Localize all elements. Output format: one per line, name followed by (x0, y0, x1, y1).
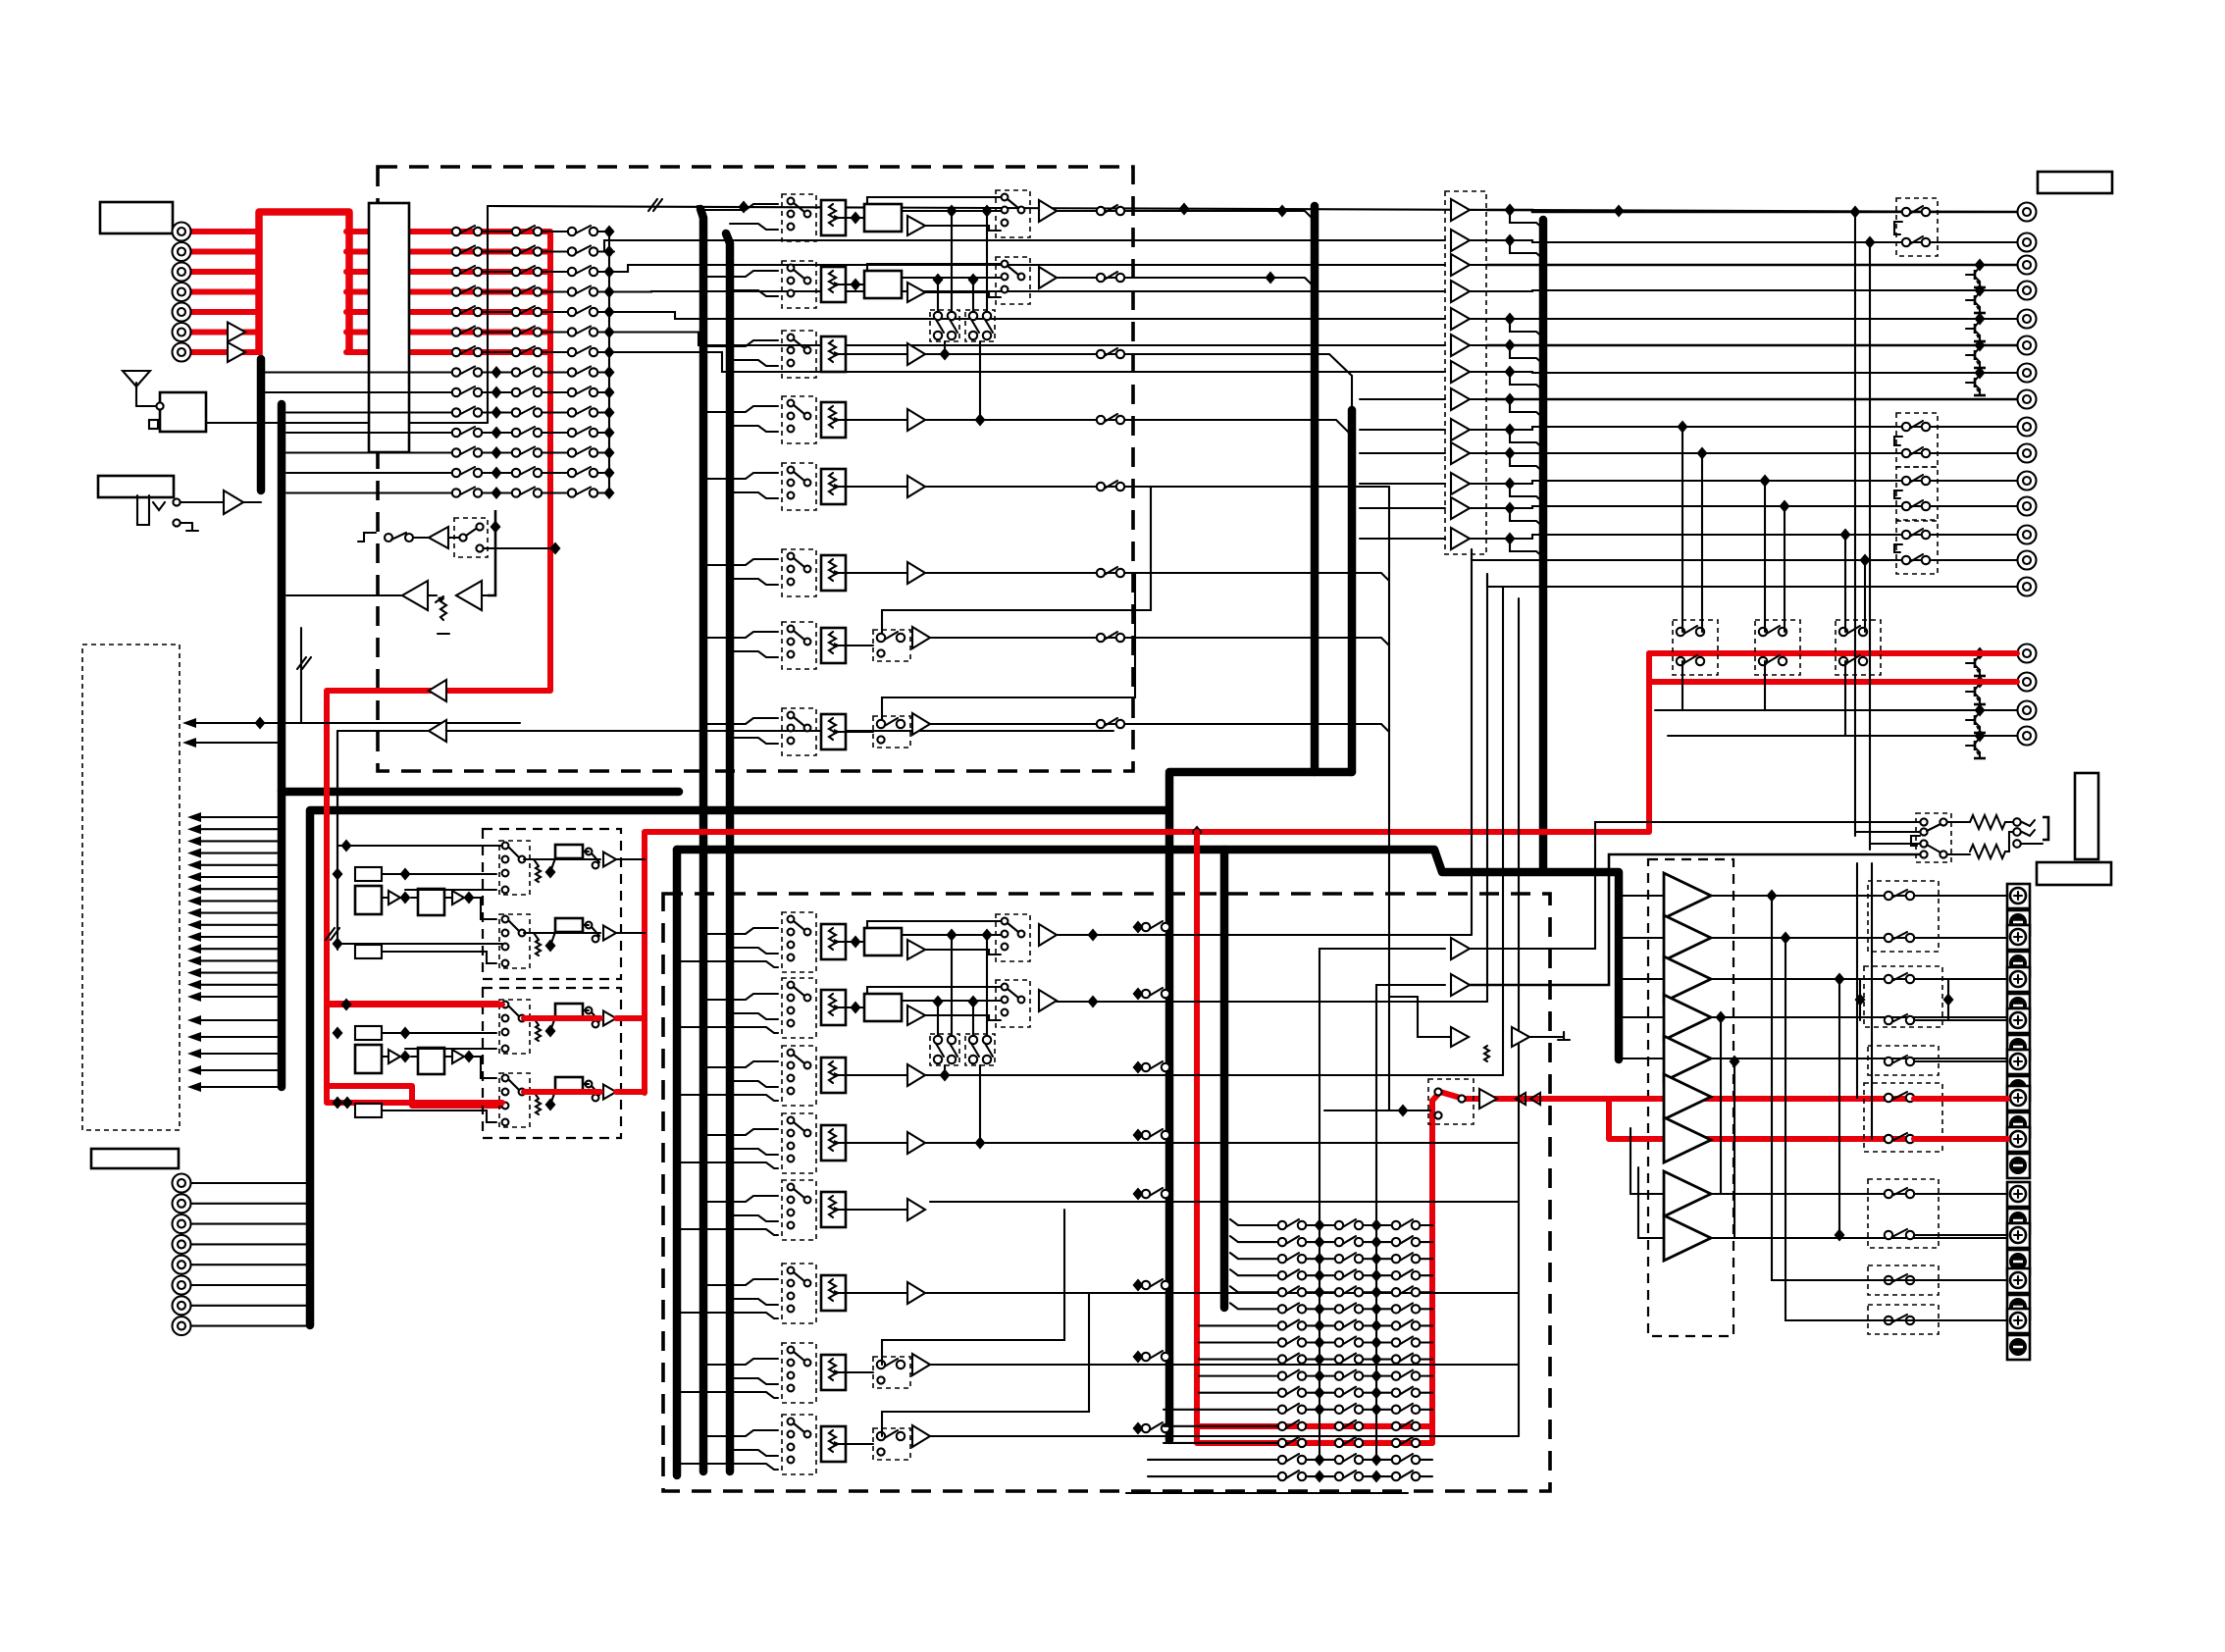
wire: fader to aux switch (846, 1443, 873, 1445)
connector: rear output jack 12 (2018, 497, 2037, 516)
wire: output row 3 to rear jack (1486, 264, 2017, 267)
wire: aux buffer out to program bus (243, 501, 261, 503)
wire: tuner output to source line (206, 422, 488, 424)
dashed box: channel input selector (782, 1046, 816, 1106)
dashed box: output mode switch (1896, 198, 1938, 256)
switch: matrix row 9 column 3 (568, 387, 597, 396)
connector: rear output jack 10 (2018, 444, 2037, 463)
op-amp: channel output buffer (1039, 990, 1057, 1011)
dashed box: phono input selector 2 (499, 1073, 530, 1127)
pot: channel fader (821, 1355, 846, 1390)
op-amp: line buffer 10 (1451, 442, 1470, 464)
connector: tape out jack 8 (173, 1316, 191, 1335)
wire: crossfeed verticals x1875 (1838, 979, 1840, 1235)
wire: power amp input stubs (1619, 895, 1664, 897)
terminal: speaker output 5 (2007, 1050, 2030, 1101)
wire: bank1 row4 output into bus x1378 (925, 420, 1352, 436)
wire: output row 9 to rear jack (1486, 427, 2017, 430)
wire: tape play line y745 with buffer (337, 730, 1113, 732)
switch: monitor matrix row 12 (1306, 1409, 1335, 1411)
pot: channel fader (821, 555, 846, 591)
op-amp: line buffer 8 (1451, 388, 1470, 410)
switch: matrix row 1 column 3 (568, 226, 597, 235)
wire: EQ interconnects (382, 897, 388, 899)
hash: bus width mark on x307 line (300, 628, 302, 723)
switch: matrix row 14 column 3 (568, 488, 597, 497)
switch: monitor matrix row 8 (1306, 1341, 1335, 1343)
wire: red selected source row 5 (346, 309, 550, 315)
block: phono EQ stage B (418, 889, 444, 915)
wire: output row 4 to rear jack (1486, 290, 2017, 291)
switch: phono output select (593, 1021, 599, 1028)
dashed box: channel input selector (782, 261, 816, 308)
wire: module out to select (902, 277, 1001, 279)
wire: jack tip to buffer (181, 501, 224, 503)
op-amp: phono buffer B (452, 891, 464, 904)
op-amp: post delay buffer (907, 216, 925, 235)
op-amp: line buffer 5 (1451, 308, 1470, 330)
dashed box: tape copy selector 1 (1673, 620, 1718, 675)
wire: function selector feed 8 (191, 900, 282, 902)
wire: phones feed vertical L (1854, 212, 1856, 836)
wire: red input lead 4 from phono jack (190, 289, 259, 295)
resistor: phones series R (1970, 845, 2005, 858)
dashed box: phono equalizer block (483, 829, 621, 979)
jack: aux/mic jack (137, 495, 165, 525)
wire: red selected source row 2 (346, 249, 550, 255)
block: delay/EQ module (864, 994, 902, 1021)
switch: monitor matrix row 10 (1306, 1375, 1335, 1377)
wire: speaker line 2 (1711, 937, 2007, 939)
connector: rear output jack 9 (2018, 418, 2037, 437)
switch: phono output select (593, 1095, 599, 1102)
switch: monitor matrix row 15 (1306, 1459, 1335, 1461)
node: talk join on V505 (491, 521, 501, 534)
wire: output row 11 to rear jack (1486, 481, 2017, 484)
pot: osc level vertical (440, 598, 446, 620)
wire: buffer 5 tap to mix bus (1510, 319, 1543, 337)
switch: monitor matrix row 6 (1306, 1308, 1335, 1310)
resistor: phono input load 1 (355, 1026, 382, 1040)
terminal: speaker output 6 (2007, 1086, 2030, 1137)
op-amp: post delay buffer (907, 283, 925, 302)
switch: matrix row 10 column 3 (568, 407, 597, 417)
wire: black feed rows 10-14 from source bus (286, 411, 412, 413)
switch: phones select levers (1927, 824, 1940, 831)
terminal: speaker output 2 (2007, 925, 2030, 976)
wire: function selector feed 4 (191, 852, 282, 854)
wire: tape3 out row 15 (1486, 574, 1488, 587)
wire: phono path lower row (337, 943, 502, 945)
connector: tape out jack 7 (173, 1296, 191, 1315)
wire: monitor matrix column verticals (1319, 1225, 1320, 1460)
op-amp: post delay buffer (907, 940, 925, 959)
wire: tape out lead 2 (191, 1203, 310, 1205)
dashed box: channel input selector (782, 1343, 816, 1403)
ground: echo ref (1558, 1032, 1570, 1040)
wire: source row 3 to buffer column (614, 265, 1445, 272)
wire: function selector feed 15 (191, 984, 282, 986)
dashed box: channel input selector (782, 622, 816, 669)
dashed box: channel input selector (782, 1180, 816, 1240)
switch: monitor matrix row 5 (1306, 1291, 1335, 1293)
wire: monitor link verticals to speaker switches (1856, 863, 1858, 1098)
transistor: REC muting Q5 (1966, 655, 1986, 676)
pot: phono trim (536, 940, 541, 955)
switch: monitor matrix row 14 (1306, 1440, 1335, 1446)
node: monitor branch junction on red feed (1192, 826, 1203, 839)
connector: REC OUT jack 1 (2018, 645, 2037, 663)
wire: bank1 row8 output to monitor feed (930, 724, 1389, 732)
switch: talkback mute switch (385, 534, 392, 542)
switch: matrix row 11 column 1 (452, 427, 482, 437)
transistor: muting Q4 (1966, 347, 1986, 368)
switch: phono output select (593, 862, 599, 869)
dashed box: channel input selector (782, 194, 816, 241)
switch: matrix row 13 column 1 (452, 467, 482, 477)
wire: buffer 13 tap to mix bus (1510, 539, 1543, 557)
wire: phones wiring (1947, 821, 1970, 823)
wire: jack ring stub to ground (181, 522, 192, 524)
dashed box: channel input selector (782, 1264, 816, 1323)
wire: matrix row 9 left stub (412, 391, 452, 393)
jack: phones frame (2043, 817, 2048, 840)
bus: record feed bus (x690) down into bank2 (673, 850, 682, 1475)
op-amp: channel buffer (907, 1132, 925, 1154)
pot: channel fader (821, 336, 846, 372)
wire: module out to select (902, 934, 1001, 936)
switch: monitor matrix row 2 (1306, 1241, 1335, 1243)
dashed box: aux routing switch (873, 1357, 910, 1388)
op-amp: mix to function buffer (left-facing) (429, 680, 446, 701)
switch: matrix row 6 column 3 (568, 327, 597, 336)
op-amp: power amplifier 3 (1664, 956, 1711, 1002)
wire: vertical x344 tape feed into phono block (336, 731, 338, 940)
wire: matrix row 8 left stub (412, 371, 452, 373)
wire: copy selector drops to REC lines (1844, 661, 1846, 736)
wire: phono path lower row (327, 1086, 502, 1103)
label box: tape outputs (91, 1149, 179, 1168)
transistor: REC muting Q7 (1966, 712, 1986, 733)
switch: matrix row 4 column 1 (452, 286, 482, 296)
dashed box: monitor/source select (996, 980, 1030, 1027)
wire: tape out lead 4 (191, 1243, 310, 1245)
op-amp: channel buffer (907, 476, 925, 497)
wire: echo feed (1418, 997, 1451, 1037)
wire: bus feeds to selector (703, 928, 778, 934)
dashed box: tape copy selector 3 (1836, 620, 1881, 675)
pot: channel fader (821, 469, 846, 504)
dashed block: buffer amp column enclosure (1445, 191, 1486, 554)
wire: copy selector risers (1844, 535, 1846, 632)
op-amp: osc buffer B (left-facing) (456, 581, 482, 610)
pot: phono trim (536, 1025, 541, 1041)
wire: function selector feed lower 3 (191, 1053, 282, 1055)
wire: red input lead 6 from phono jack (190, 330, 259, 336)
op-amp: line buffer 13 (1451, 528, 1470, 549)
wire: red input lead 5 from phono jack (190, 309, 259, 315)
wire: bus feeds to selector (703, 632, 778, 638)
wire: source row 6 to buffer column (614, 333, 1445, 346)
wire: speaker staircase verticals (1772, 896, 2007, 1280)
wire: tape out lead 8 (191, 1325, 310, 1327)
wire: red monitor drop x1220 (1197, 832, 1432, 1443)
bus: vertical program bus left (under red trunk) (257, 359, 266, 490)
wire: function feed line with arrow y737 (186, 722, 520, 724)
wire: output row 2 to rear jack (1486, 240, 2017, 242)
dashed box: channel input selector (782, 396, 816, 443)
wire: buffer 7 tap to mix bus (1510, 372, 1543, 390)
wire: buffer 1 tap to mix bus (1510, 210, 1543, 229)
switch: matrix row 5 column 1 (452, 306, 482, 316)
op-amp: line input buffer upper (228, 323, 245, 342)
antenna: AM/FM (123, 371, 155, 406)
wire: record bus 717 tap curve (698, 206, 703, 214)
terminal: speaker output 9 (2007, 1223, 2030, 1274)
dashed box: monitor source selector (1428, 1079, 1474, 1124)
connector: rear output jack 4 (2018, 282, 2037, 300)
wire: bus feeds to selector (703, 1430, 778, 1436)
wire: red phono trunk top-left (259, 212, 349, 355)
connector: tape out jack 5 (173, 1256, 191, 1274)
wire: red speaker feed overlay L (1914, 1096, 2007, 1102)
block: tuner (160, 392, 206, 432)
wire: loop over module (867, 987, 1001, 994)
switch: monitor matrix row 4 (1306, 1274, 1335, 1276)
switch: matrix row 2 column 2 (512, 246, 542, 256)
pot: channel fader (821, 1058, 846, 1093)
wire: tape3 riser verticals (1471, 549, 1473, 935)
wire: bus feeds to selector (703, 204, 778, 210)
op-amp: power amplifier 5 (1664, 1036, 1711, 1081)
wire: red REC OUT right y695 (1649, 679, 2017, 685)
op-amp: phono buffer A (388, 891, 400, 904)
wire: bus feeds to selector (703, 406, 778, 412)
wire: mix bus stub to buffer row 11 (1360, 483, 1445, 485)
wire: matrix col1 riser to monitor amp 1 (1319, 949, 1445, 1225)
transistor: muting Q5 (1966, 375, 1986, 395)
op-amp: echo return (1512, 1027, 1529, 1047)
op-amp: power amplifier 7 (1664, 1117, 1711, 1162)
dashed box: channel input selector (782, 549, 816, 596)
transistor: REC muting Q8 (1966, 738, 1986, 758)
pot: channel fader (821, 200, 846, 235)
wire: function selector feed 16 (191, 996, 282, 998)
wire: EQ interconnects (382, 1056, 388, 1058)
op-amp: tape play buffer (left-facing) (429, 720, 446, 742)
switch: matrix row 14 column 2 (512, 488, 542, 497)
wire: output row 1 to rear jack (1486, 210, 2017, 212)
switch: matrix row 12 column 1 (452, 447, 482, 457)
switch: matrix row 1 column 1 (452, 226, 482, 235)
block: phono EQ stage A (355, 1045, 382, 1073)
wire: red input lead 1 from phono jack (190, 229, 259, 234)
wire: extra unswitched line below matrix (1126, 1492, 1408, 1494)
switch: matrix row 13 column 2 (512, 467, 542, 477)
switch: matrix row 6 column 1 (452, 327, 482, 336)
wire: speaker line 3 (1711, 978, 2007, 980)
connector: tape out jack 6 (173, 1276, 191, 1295)
wire: fader to aux switch (846, 731, 873, 733)
dashed box: phono equalizer block (483, 988, 621, 1138)
resistor: phono input load 1 (355, 867, 382, 881)
wire: mix bus stub to buffer row 8 (1360, 398, 1445, 400)
wire: dub outputs down (944, 341, 946, 354)
switch: matrix row 12 column 3 (568, 447, 597, 457)
switch: matrix row 3 column 2 (512, 266, 542, 276)
connector: rear output jack 1 (2018, 203, 2037, 222)
wire: function feed line with arrow y757 (186, 742, 282, 744)
connector: rear output jack 15 (2018, 578, 2037, 596)
terminal: speaker output 7 (2007, 1127, 2030, 1178)
switch: matrix row 6 column 2 (512, 327, 542, 336)
wire: bus feeds to selector (703, 1196, 778, 1202)
connector: rear output jack 6 (2018, 336, 2037, 355)
connector: phono/line input jack 6 (173, 323, 191, 341)
switch: matrix row 5 column 2 (512, 306, 542, 316)
wire: function selector feed 12 (191, 948, 282, 950)
op-amp: phono output buffer (603, 926, 616, 941)
wire: output row 8 to rear jack (1486, 398, 2017, 401)
wire: bank1 row3 output into bus x1378 (925, 354, 1352, 410)
op-amp: channel buffer (907, 343, 925, 365)
switch: matrix row 8 column 2 (512, 367, 542, 377)
wire: record bus 744 tap curve (724, 232, 730, 239)
wire: source row 7 to buffer column (614, 352, 1445, 372)
wire: function selector feed 3 (191, 840, 282, 842)
wire: output row 6 to rear jack (1486, 344, 2017, 347)
terminal: speaker output 8 (2007, 1182, 2030, 1233)
wire: bank2 aux links to rows 5/6 (882, 1210, 1064, 1365)
dashed box: phones source switch (1916, 813, 1951, 862)
wire: red monitor riser x1460 (1429, 1101, 1435, 1443)
bus: source bus B from y412 down left side (278, 404, 286, 1087)
hash: impedance mark on red trunk (326, 928, 339, 940)
wire: module out to select (902, 1000, 1001, 1002)
switch: matrix row 11 column 3 (568, 427, 597, 437)
switch: matrix row 14 column 1 (452, 488, 482, 497)
switch: matrix row 3 column 3 (568, 266, 597, 276)
wire: function selector feed 9 (191, 912, 282, 914)
pot: channel fader (821, 714, 846, 749)
strip: input connector strip rectangle (369, 203, 409, 452)
wire: bus feeds to selector (703, 559, 778, 565)
block: tuner ground tab (149, 420, 160, 429)
bus: record bus V744 (726, 233, 730, 1471)
connector: REC OUT jack 2 (2018, 673, 2037, 692)
switch: matrix row 2 column 1 (452, 246, 482, 256)
wire: red phono-2 lower branch y1124 (327, 1103, 502, 1106)
switch: monitor matrix row 3 (1306, 1258, 1335, 1260)
pot: channel fader (821, 1275, 846, 1311)
wire: tape out lead 5 (191, 1264, 310, 1265)
block: phono EQ stage B (418, 1048, 444, 1074)
wire: tape out lead 3 (191, 1223, 310, 1225)
wire: red selected source row 6 (346, 330, 550, 336)
wire: bus feeds to selector (703, 718, 778, 724)
ground: switch common (1894, 544, 1902, 552)
wire: red REC OUT overlay (1947, 650, 2017, 656)
resistor: phono input load 2 (355, 1104, 382, 1117)
transistor: muting Q1 (1966, 267, 1986, 287)
resistor: phono input load 2 (355, 945, 382, 958)
op-amp: channel buffer (907, 409, 925, 431)
wire: red through monitor selector switch (1432, 1092, 2017, 1101)
op-amp: monitor amp 1 (1451, 938, 1470, 959)
wire: copy selector drops to REC lines (1682, 661, 1683, 710)
op-amp: phono output buffer (603, 1085, 616, 1100)
dashed box: monitor/source select (996, 914, 1030, 961)
switch: matrix row 4 column 2 (512, 286, 542, 296)
wire: loop over module (867, 197, 1001, 204)
resistor: echo level (1484, 1046, 1489, 1061)
wire: master source line y210 across page (488, 206, 2017, 212)
connector: tape out jack 1 (173, 1174, 191, 1193)
jack: phones springs (2022, 820, 2035, 826)
wire: buffer 8 tap to mix bus (1510, 399, 1543, 418)
connector: phono/line input jack 7 (173, 343, 191, 362)
dashed box: phono input selector 2 (499, 914, 530, 968)
op-amp: channel buffer (912, 1425, 930, 1447)
wire: speaker line 8 (1711, 1193, 2007, 1195)
wire: tape out lead 1 (191, 1182, 310, 1184)
switch: matrix row 7 column 2 (512, 346, 542, 356)
wire: tape out lead 7 (191, 1305, 310, 1307)
wire: red record trunk x657 up to main red feed (645, 653, 1649, 1093)
ground: switch common (1894, 222, 1902, 234)
bus: output mix bus x1573 (1539, 220, 1548, 871)
wire: monitor out risers to phones bus (1470, 822, 1920, 949)
resistor: phones series L (1970, 815, 2005, 829)
wire: selector to pot links (509, 848, 519, 857)
wire: function selector feed lower 1 (191, 1019, 282, 1021)
connector: phono/line input jack 3 (173, 263, 191, 282)
wire: talk aux line y559 (484, 547, 555, 549)
bus: tape-out bus with corner at x316 (310, 810, 1167, 1325)
op-amp: monitor out buffer (1479, 1089, 1497, 1109)
wire: phones feeds (1855, 831, 1920, 833)
op-amp: power amplifier 8 (1664, 1171, 1711, 1216)
op-amp: power amplifier 2 (1664, 915, 1711, 960)
jack: phones contacts (2013, 818, 2021, 826)
op-amp: echo send (1451, 1027, 1469, 1047)
wire: monitor select line (1324, 1110, 1430, 1111)
node: phono-2 branch junction (342, 1097, 353, 1110)
wire: function selector feed 2 (191, 828, 282, 830)
switch: matrix row 2 column 3 (568, 246, 597, 256)
terminal: speaker output 11 (2007, 1309, 2030, 1360)
op-amp: channel buffer (907, 1064, 925, 1086)
dashed box: bank2 dubbing switch B (965, 1034, 995, 1065)
connector: rear output jack 3 (2018, 256, 2037, 275)
op-amp: phono output buffer (603, 852, 616, 867)
op-amp: phono buffer B (452, 1050, 464, 1063)
wire: function selector feed 5 (191, 864, 282, 866)
wire: red selected source row 4 (346, 289, 550, 295)
wire: red REC OUT left y666 (1649, 650, 2017, 656)
connector: phono/line input jack 4 (173, 283, 191, 301)
switch: matrix row 1 column 2 (512, 226, 542, 235)
wire: matrix row 13 left stub (412, 472, 452, 474)
wire: loop over module (867, 264, 1001, 271)
label box: PHONO inputs (100, 202, 173, 233)
wire: phono outputs to record trunk (618, 858, 645, 860)
dashed block: power amplifier enclosure (1648, 859, 1733, 1336)
wire: bus feeds to selector (703, 994, 778, 1000)
pot: channel fader (821, 402, 846, 438)
op-amp: channel output buffer (1039, 267, 1057, 288)
switch: matrix row 12 column 2 (512, 447, 542, 457)
